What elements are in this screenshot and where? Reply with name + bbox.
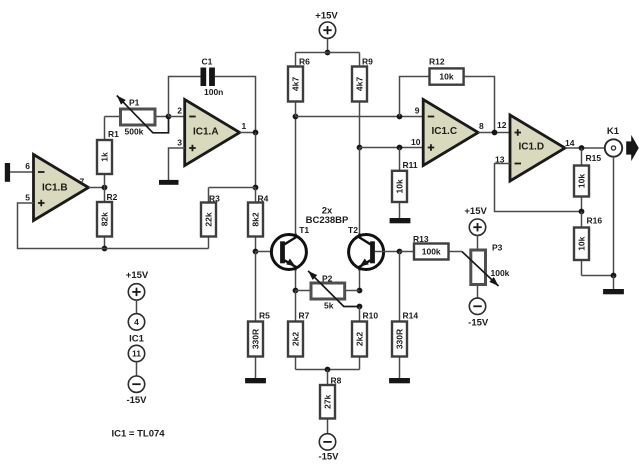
svg-text:-15V: -15V <box>318 452 339 463</box>
wire IC1.A output <box>240 132 256 134</box>
svg-text:P3: P3 <box>492 243 503 253</box>
svg-text:-15V: -15V <box>468 318 489 329</box>
ground R14 <box>389 378 410 383</box>
svg-text:IC1.C: IC1.C <box>432 126 458 137</box>
svg-text:R6: R6 <box>299 57 310 67</box>
resistor R15 <box>574 148 601 212</box>
svg-text:6: 6 <box>25 161 30 171</box>
svg-text:R9: R9 <box>362 57 373 67</box>
svg-text:R16: R16 <box>587 216 603 226</box>
svg-text:C1: C1 <box>202 57 213 67</box>
wire to R3 <box>209 187 256 189</box>
node P2 wiper <box>357 304 363 310</box>
node R11 top <box>397 145 403 151</box>
node IC1.C output <box>492 130 498 136</box>
node R1/R2 junction <box>102 185 108 191</box>
node P2 left <box>293 288 299 294</box>
potentiometer P3 <box>462 243 510 287</box>
svg-text:4k7: 4k7 <box>291 77 301 91</box>
svg-text:P1: P1 <box>129 98 140 108</box>
resistor R1 <box>97 117 119 188</box>
svg-text:R12: R12 <box>429 57 445 67</box>
svg-text:IC1.D: IC1.D <box>519 142 545 153</box>
node T2 base / R14 top <box>397 249 403 255</box>
wire T2 collector <box>359 148 361 235</box>
wire IC1.B feedback rail <box>18 203 209 249</box>
wire pin 10 rail <box>360 147 424 149</box>
svg-text:IC1.B: IC1.B <box>42 183 68 194</box>
svg-text:100k: 100k <box>422 247 441 257</box>
wire pin 3 to ground <box>169 148 185 180</box>
wire emitter rail <box>296 369 360 371</box>
wire R12 left <box>400 77 430 117</box>
svg-text:14: 14 <box>565 138 575 148</box>
supply +15V top <box>315 11 338 53</box>
node R12 left leg <box>397 114 403 120</box>
wire +15V rail <box>296 52 360 54</box>
svg-text:+15V: +15V <box>464 206 487 217</box>
svg-text:27k: 27k <box>323 394 333 408</box>
svg-text:R2: R2 <box>107 192 118 202</box>
wire down to ground <box>613 276 615 290</box>
resistor R13 <box>400 234 462 260</box>
input terminal <box>5 163 10 182</box>
wire T1 base <box>256 251 281 253</box>
svg-text:10k: 10k <box>395 179 405 193</box>
svg-text:8: 8 <box>479 121 484 131</box>
svg-text:2: 2 <box>177 106 182 116</box>
node IC1.A output <box>253 130 259 136</box>
svg-text:10k: 10k <box>577 174 587 188</box>
svg-text:7: 7 <box>80 177 85 187</box>
supply -15V bottom <box>318 434 339 463</box>
resistor R8 <box>320 370 342 435</box>
svg-text:P2: P2 <box>322 274 333 284</box>
svg-text:T2: T2 <box>348 225 358 235</box>
svg-text:R5: R5 <box>259 311 270 321</box>
pin 4 circle <box>128 314 144 330</box>
resistor R3 <box>201 188 220 249</box>
wire K1 to ground <box>613 157 615 276</box>
wire T1 collector <box>295 117 297 235</box>
op-amp IC1.A <box>185 100 240 166</box>
resistor R11 <box>392 148 418 219</box>
op-amp IC1.B <box>34 155 89 221</box>
svg-text:12: 12 <box>497 120 507 130</box>
svg-text:2k2: 2k2 <box>355 332 365 346</box>
svg-text:R10: R10 <box>363 311 379 321</box>
svg-text:82k: 82k <box>100 212 110 226</box>
wire pin 9 rail <box>296 116 424 118</box>
node R3/R4 junction <box>253 185 259 191</box>
transistor T1 <box>271 234 306 271</box>
wire T1 emitter <box>295 270 297 291</box>
svg-text:R13: R13 <box>413 234 429 244</box>
svg-text:R7: R7 <box>299 311 310 321</box>
svg-text:+15V: +15V <box>315 11 338 22</box>
svg-text:R15: R15 <box>586 153 602 163</box>
wire R16 bottom <box>582 275 614 277</box>
node T1 base <box>253 249 259 255</box>
potentiometer P1 <box>105 96 169 137</box>
svg-text:9: 9 <box>415 106 420 116</box>
wire T2 base <box>375 251 400 253</box>
svg-text:100n: 100n <box>204 87 223 97</box>
node ground junction <box>611 273 617 279</box>
svg-text:10: 10 <box>411 137 421 147</box>
resistor R2 <box>97 188 118 249</box>
wire IC1.C output <box>478 132 510 134</box>
svg-text:10k: 10k <box>577 236 587 250</box>
svg-text:-15V: -15V <box>126 395 147 406</box>
pin 11 circle <box>128 345 144 361</box>
svg-text:3: 3 <box>177 138 182 148</box>
svg-text:11: 11 <box>132 349 141 359</box>
svg-text:5k: 5k <box>324 301 334 311</box>
wire T2 emitter <box>359 270 361 291</box>
svg-text:T1: T1 <box>299 225 309 235</box>
supply -15V for P3 <box>468 285 489 329</box>
ground R11 <box>390 218 411 223</box>
svg-text:R4: R4 <box>258 194 269 204</box>
svg-text:R11: R11 <box>403 160 418 170</box>
resistor R5 <box>248 252 270 379</box>
resistor R12 <box>429 57 464 85</box>
supply +15V for P3 <box>464 206 487 250</box>
wire C1 left <box>169 77 201 117</box>
node R15 top <box>579 145 585 151</box>
svg-text:10k: 10k <box>439 72 453 82</box>
svg-text:R14: R14 <box>403 311 419 321</box>
wire R12 right <box>464 77 495 133</box>
node R8 top <box>325 367 331 373</box>
node R6 bottom <box>293 114 299 120</box>
node R9 bottom / pin 10 rail <box>357 145 363 151</box>
node pin 2 junction <box>166 114 172 120</box>
transistor T2 <box>349 234 384 271</box>
svg-text:330R: 330R <box>251 329 261 349</box>
resistor R14 <box>392 252 418 379</box>
resistor R4 <box>248 188 269 252</box>
svg-text:+15V: +15V <box>126 270 149 281</box>
svg-text:330R: 330R <box>395 329 405 349</box>
resistor R7 <box>288 291 310 370</box>
svg-text:R1: R1 <box>108 129 119 139</box>
resistor R6 <box>288 53 310 117</box>
resistor R16 <box>574 212 602 276</box>
potentiometer P2 <box>296 271 360 311</box>
connector K1 <box>605 126 639 161</box>
wire IC1.B output <box>89 187 105 189</box>
svg-text:1: 1 <box>242 121 247 131</box>
svg-text:500k: 500k <box>125 127 144 137</box>
svg-text:8k2: 8k2 <box>251 212 261 226</box>
wire C1 right <box>215 77 256 133</box>
wire input to IC1.B pin 6 <box>10 171 33 173</box>
svg-text:5: 5 <box>25 193 30 203</box>
ground R5 <box>245 378 266 383</box>
svg-text:1k: 1k <box>100 152 110 162</box>
ground bottom right <box>603 289 624 294</box>
svg-text:BC238BP: BC238BP <box>306 215 349 226</box>
svg-text:R8: R8 <box>331 376 342 386</box>
op-amp IC1.C <box>423 100 478 166</box>
svg-text:K1: K1 <box>607 126 620 137</box>
capacitor C1 <box>201 57 224 98</box>
supply +15V for IC1 <box>126 270 149 314</box>
svg-text:22k: 22k <box>204 212 214 226</box>
resistor R9 <box>352 53 373 148</box>
svg-text:IC1 = TL074: IC1 = TL074 <box>112 429 166 440</box>
node +15V rail <box>325 50 331 56</box>
wire output down <box>255 133 257 188</box>
wire IC1.D output <box>565 147 605 149</box>
wire pin 13 feedback <box>495 164 582 212</box>
op-amp IC1.D <box>510 115 565 181</box>
svg-text:4: 4 <box>134 317 139 327</box>
svg-text:4k7: 4k7 <box>355 77 365 91</box>
ground IC1.A pin 3 <box>159 180 179 185</box>
svg-text:IC1.A: IC1.A <box>193 127 219 138</box>
node P2 right <box>357 288 363 294</box>
svg-text:IC1: IC1 <box>129 334 145 345</box>
wire node to pin 2 <box>169 116 185 118</box>
node R2 bottom <box>102 246 108 252</box>
resistor R10 <box>352 307 378 370</box>
supply -15V for IC1 <box>126 362 147 406</box>
svg-text:2k2: 2k2 <box>291 332 301 346</box>
svg-text:R3: R3 <box>209 194 220 204</box>
svg-text:100k: 100k <box>491 268 510 278</box>
node R15/R16 junction <box>579 209 585 215</box>
